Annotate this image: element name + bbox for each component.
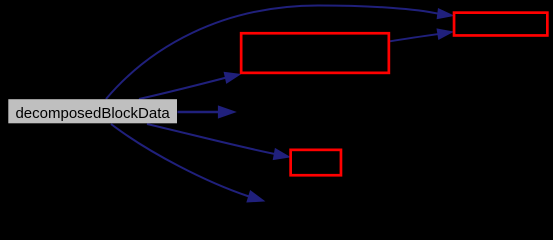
small red node (black text invisible) — [291, 150, 341, 175]
edge decomposedBlockData -> top-right node (long top arc) — [106, 6, 439, 100]
svg-text:decomposedBlockData: decomposedBlockData — [15, 105, 170, 122]
edge decomposedBlockData -> hidden bottom node (curved) — [111, 124, 249, 197]
arrowhead at small node — [273, 149, 289, 160]
arrowhead of bottom curved arrow — [247, 191, 264, 202]
arrowhead of middle->top-right edge — [437, 29, 453, 39]
arrowhead of top arc at top-right node — [437, 9, 453, 19]
edge middle node -> top-right node — [390, 34, 441, 42]
edge decomposedBlockData -> middle node (to lower-left corner of middle box) — [139, 77, 228, 99]
arrowhead of horizontal arrow — [218, 106, 235, 118]
edge decomposedBlockData -> hidden node (horizontal arrow) — [178, 111, 220, 113]
top-right red node (truncated, black text invisible) — [454, 13, 547, 36]
middle red node (two-line, black text invisible) — [241, 33, 389, 73]
arrowhead at middle node lower-left corner — [224, 72, 240, 83]
node decomposedBlockData (gray filled box) — [8, 99, 177, 123]
edge decomposedBlockData -> small node — [147, 124, 278, 155]
